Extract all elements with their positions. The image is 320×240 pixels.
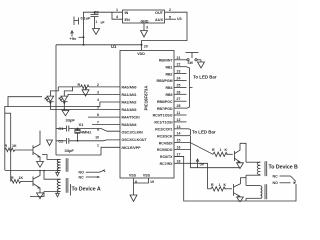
svg-text:EN: EN	[125, 18, 131, 22]
LED D1	[45, 96, 54, 109]
svg-text:0.1uF: 0.1uF	[81, 16, 92, 20]
capacitor C1	[56, 126, 69, 132]
resistor R4 1K	[212, 148, 233, 157]
svg-text:1: 1	[116, 8, 118, 12]
wire far left V2	[5, 112, 11, 114]
wire stub left of label	[70, 184, 72, 196]
svg-text:To Device B: To Device B	[269, 165, 299, 171]
transistor Q3	[234, 143, 240, 163]
svg-text:To Device A: To Device A	[72, 187, 101, 193]
svg-text:U1: U1	[111, 44, 117, 49]
svg-text:RA3/AN3: RA3/AN3	[122, 108, 137, 112]
svg-text:/MCLR/VPP: /MCLR/VPP	[122, 146, 142, 150]
svg-text:RA5/AN4: RA5/AN4	[122, 123, 137, 127]
svg-text:21: 21	[177, 56, 181, 60]
transistor Q2	[33, 171, 40, 193]
bracket to LED bar pins 22-28	[187, 67, 217, 109]
svg-text:RB1: RB1	[165, 65, 172, 69]
U1 VSS pins 8 19	[134, 178, 155, 195]
svg-text:RA2/AN2: RA2/AN2	[122, 101, 137, 105]
wire to LED D1	[50, 87, 58, 96]
svg-text:8: 8	[135, 180, 137, 184]
svg-text:RA1/AN1: RA1/AN1	[122, 93, 137, 97]
LED D2	[59, 96, 68, 109]
svg-text:25: 25	[177, 83, 181, 87]
svg-text:X1: X1	[79, 122, 85, 127]
svg-text:24: 24	[177, 77, 181, 81]
svg-text:27: 27	[177, 97, 181, 101]
svg-text:VSS: VSS	[129, 173, 137, 177]
svg-text:3: 3	[146, 26, 148, 30]
svg-text:22: 22	[177, 63, 181, 67]
svg-text:10: 10	[95, 136, 99, 140]
svg-text:RB6/PGC: RB6/PGC	[157, 100, 173, 104]
U1 left pin numbers	[95, 83, 99, 147]
ground rail wire right	[190, 167, 240, 169]
U1 left pin labels	[122, 85, 148, 149]
ground under C3	[93, 29, 100, 35]
wire 9v input top	[84, 12, 113, 45]
svg-text:OSC2/CLKOUT: OSC2/CLKOUT	[122, 138, 148, 142]
svg-text:1: 1	[97, 143, 99, 147]
svg-text:VDD: VDD	[137, 52, 145, 56]
ground under Q1 emitter	[37, 161, 44, 167]
+9v power arrow	[70, 31, 85, 41]
svg-text:12: 12	[177, 118, 181, 122]
wire Q3 collector to relay K3	[240, 143, 246, 162]
wire pin15 diagonal to R4	[189, 136, 191, 168]
rail wire to K1 bottom	[5, 170, 61, 172]
svg-text:RB3/PGM: RB3/PGM	[157, 79, 173, 83]
IC U1 body	[111, 44, 174, 178]
transistor Q2 base resistor R3 1K	[11, 176, 33, 183]
svg-text:RC0/T1OSO: RC0/T1OSO	[153, 114, 173, 118]
stub wire left ladder	[8, 97, 42, 107]
pushbutton SW on pin 21	[186, 53, 202, 65]
svg-text:19: 19	[150, 180, 154, 184]
rail from +9v junction to VDD node	[56, 44, 142, 46]
svg-text:RC3/SCK: RC3/SCK	[157, 134, 173, 138]
wire RA1 to LED D2	[68, 94, 120, 96]
svg-text:IN: IN	[125, 11, 129, 15]
relay K1 coil	[57, 158, 68, 172]
wire K2 bottom lead	[30, 192, 61, 197]
ground under Q4	[237, 197, 244, 202]
U1 left pin stubs	[5, 102, 120, 170]
capacitor C3	[91, 11, 105, 29]
regulator OUT wire to rail	[141, 8, 188, 51]
polarity arrow under K1	[56, 171, 60, 176]
svg-text:NC: NC	[273, 174, 279, 178]
svg-text:RC6/TX: RC6/TX	[160, 155, 173, 159]
wire Q4 collector to relay K4	[240, 177, 246, 179]
svg-text:R: R	[78, 83, 81, 87]
bracket to LED bar pins 13 14	[189, 129, 216, 136]
svg-text:33pF: 33pF	[65, 148, 75, 153]
svg-text:NO: NO	[273, 181, 279, 185]
svg-text:6: 6	[97, 113, 99, 117]
svg-text:R: R	[212, 148, 215, 152]
transistor Q1	[33, 131, 40, 162]
junction dot cathode rail	[63, 109, 65, 111]
svg-text:OSC1/CLKIN: OSC1/CLKIN	[122, 131, 144, 135]
capacitor C4 input electrolytic	[74, 16, 91, 25]
svg-text:uF: uF	[101, 21, 105, 25]
regulator U3 body	[123, 10, 165, 24]
ground under U1	[130, 195, 137, 202]
svg-text:5v: 5v	[200, 162, 205, 167]
ground arrow on RA3 wire	[62, 110, 69, 116]
wire K1 top lead	[42, 155, 61, 160]
svg-text:23: 23	[177, 70, 181, 74]
wire C2 to OSC2	[69, 139, 120, 142]
svg-text:18: 18	[177, 159, 181, 163]
svg-text:PIC16F873A: PIC16F873A	[144, 86, 149, 111]
wire C1 to OSC1	[69, 129, 120, 132]
ground under R1	[82, 87, 89, 96]
floating ground mark	[47, 140, 53, 146]
transistor Q1 base resistor R2 1K	[5, 144, 33, 151]
svg-text:20: 20	[144, 44, 148, 48]
svg-text:GND: GND	[141, 20, 149, 24]
svg-text:7: 7	[97, 121, 99, 125]
relay K3-K4 tie wire	[245, 175, 247, 185]
relay K4 coil	[246, 184, 267, 199]
svg-text:4MHz: 4MHz	[81, 129, 91, 134]
svg-text:1: 1	[220, 148, 222, 152]
svg-text:2: 2	[97, 83, 99, 87]
U1 right pin labels	[153, 59, 174, 167]
relay B contacts NC NO	[273, 174, 297, 185]
svg-text:RA4/T0CKI: RA4/T0CKI	[122, 116, 140, 120]
U1 right pin numbers and stubs	[177, 56, 181, 164]
polarity arrow under K2	[56, 192, 60, 197]
svg-text:RB5: RB5	[165, 93, 172, 97]
svg-text:11: 11	[177, 111, 181, 115]
svg-text:NO: NO	[79, 170, 85, 174]
svg-text:3: 3	[97, 90, 99, 94]
wire K1-K2 tie	[44, 171, 61, 180]
svg-text:NC: NC	[79, 175, 85, 179]
svg-text:1K: 1K	[19, 176, 24, 180]
svg-text:28: 28	[177, 104, 181, 108]
svg-text:RB0/INT: RB0/INT	[159, 59, 173, 63]
svg-text:RC1/T1OSI: RC1/T1OSI	[154, 121, 172, 125]
resistor R5 1K	[208, 183, 233, 191]
regulator AUX stub U3	[165, 15, 182, 21]
svg-text:To LED Bar: To LED Bar	[193, 75, 217, 80]
left outer wire from rail down	[55, 45, 57, 155]
crystal X1	[75, 122, 92, 142]
svg-text:4: 4	[97, 98, 99, 102]
svg-text:VSS: VSS	[143, 173, 151, 177]
svg-text:+9v: +9v	[70, 36, 78, 41]
relay K2 coil	[57, 178, 68, 193]
svg-text:RB2: RB2	[165, 72, 172, 76]
resistor R1 on RA0	[58, 83, 120, 89]
svg-text:C3: C3	[95, 11, 99, 15]
svg-text:AUX: AUX	[155, 18, 163, 22]
relay A contacts NO NC	[79, 170, 106, 180]
regulator GND pin 3	[144, 23, 148, 31]
svg-text:26: 26	[177, 90, 181, 94]
svg-text:OUT: OUT	[155, 11, 164, 15]
transistor Q4	[234, 178, 241, 197]
svg-text:5: 5	[169, 15, 171, 19]
svg-text:1: 1	[96, 20, 98, 24]
ground under regulator	[141, 31, 148, 38]
svg-text:2: 2	[169, 8, 171, 12]
wire IN/EN bracket	[112, 8, 123, 19]
svg-text:SW: SW	[188, 61, 194, 65]
capacitor C2	[56, 138, 69, 144]
svg-text:RB7/PGD: RB7/PGD	[157, 107, 173, 111]
svg-text:13: 13	[177, 125, 181, 129]
svg-text:RC5/SDO: RC5/SDO	[157, 148, 173, 152]
svg-text:14: 14	[177, 132, 181, 136]
svg-text:RC7/RX: RC7/RX	[160, 162, 174, 166]
+5v power arrow	[196, 159, 205, 168]
svg-text:17: 17	[177, 152, 181, 156]
wire pin17 loop	[174, 156, 296, 201]
svg-text:RC2/CCP1: RC2/CCP1	[155, 128, 172, 132]
svg-text:RA0/AN0: RA0/AN0	[122, 85, 137, 89]
relay K3 coil	[246, 161, 267, 176]
svg-text:1K: 1K	[12, 144, 17, 148]
ground at SW	[198, 60, 205, 68]
svg-text:RC4/SDI: RC4/SDI	[159, 141, 173, 145]
svg-text:4: 4	[116, 15, 118, 19]
svg-text:RB4: RB4	[165, 86, 172, 90]
svg-text:33pF: 33pF	[66, 117, 76, 122]
svg-text:K: K	[225, 148, 228, 152]
svg-text:16: 16	[177, 146, 181, 150]
svg-text:15: 15	[177, 139, 181, 143]
wire pin18 down to R5	[187, 163, 208, 189]
svg-text:U3: U3	[177, 17, 182, 21]
ground under Q3	[237, 163, 244, 169]
MCLR wire	[56, 147, 101, 155]
svg-text:To LED Bar: To LED Bar	[192, 129, 216, 134]
wire to LED D2 top	[64, 87, 72, 96]
ground under Q2 emitter	[37, 193, 44, 199]
